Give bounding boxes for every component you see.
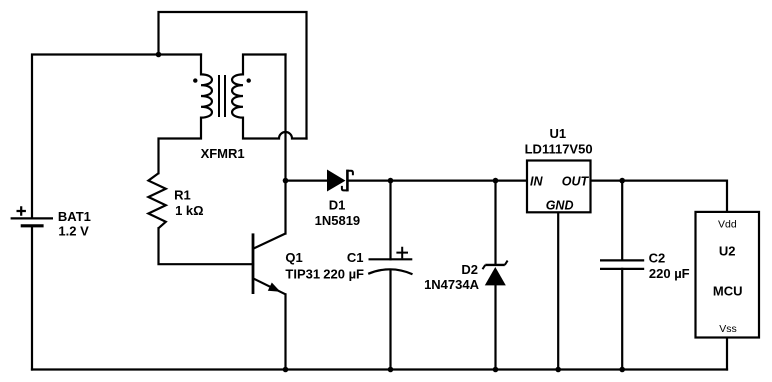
wire collector vertical: [284, 55, 286, 234]
svg-text:U1: U1: [549, 126, 566, 141]
D1 schottky hooks: [342, 171, 353, 191]
svg-text:C1: C1: [347, 250, 364, 265]
Q1 emitter arrow: [268, 283, 281, 292]
svg-text:220 µF: 220 µF: [323, 267, 364, 282]
svg-text:LD1117V50: LD1117V50: [525, 141, 593, 156]
wire R1 bottom to Q1 base: [159, 228, 254, 264]
D2 zener ticks: [483, 261, 508, 270]
wire battery positive to primary top: [32, 55, 201, 219]
primary winding: [201, 74, 212, 117]
D2 zener bar: [485, 264, 505, 266]
wire C2 top: [621, 181, 623, 261]
svg-text:R1: R1: [174, 188, 191, 203]
regulator U1: [527, 161, 591, 213]
svg-text:Q1: Q1: [285, 250, 302, 265]
junction D2 node: [493, 178, 499, 184]
diode D1 (schottky): [327, 170, 346, 192]
resistor R1: [148, 173, 165, 228]
svg-text:TIP31: TIP31: [285, 267, 320, 282]
wire C1 top: [389, 181, 391, 260]
svg-text:IN: IN: [530, 175, 543, 189]
wire U1 GND stub: [557, 212, 559, 369]
wire primary top stub: [200, 55, 202, 75]
svg-text:1N5819: 1N5819: [315, 213, 361, 228]
junction C1 node: [388, 178, 394, 184]
svg-text:1 kΩ: 1 kΩ: [175, 203, 204, 218]
junction D1 node: [283, 178, 289, 184]
wire secondary top to collector line: [243, 55, 286, 75]
Q1 emitter diagonal: [253, 278, 286, 294]
C2 bottom plate: [600, 268, 644, 270]
wire battery negative to ground rail: [31, 226, 33, 370]
svg-text:OUT: OUT: [562, 175, 590, 189]
Q1 collector diagonal: [253, 234, 286, 249]
secondary phase dot: [247, 78, 251, 82]
svg-text:220 µF: 220 µF: [649, 266, 690, 281]
svg-text:BAT1: BAT1: [58, 209, 91, 224]
wire ground rail: [32, 368, 727, 370]
MCU U2: [696, 212, 760, 338]
svg-text:XFMR1: XFMR1: [201, 146, 245, 161]
junction rail C1: [388, 367, 394, 373]
zener diode D2: [485, 267, 506, 285]
svg-text:MCU: MCU: [713, 283, 743, 298]
wire C2 bottom to rail: [621, 269, 623, 370]
primary phase dot: [193, 78, 197, 82]
junction rail Q1: [283, 367, 289, 373]
secondary winding: [232, 74, 243, 117]
junction rail C2: [619, 367, 625, 373]
svg-text:U2: U2: [719, 243, 736, 258]
svg-text:1N4734A: 1N4734A: [424, 277, 480, 292]
svg-text:GND: GND: [546, 199, 574, 213]
wire top feedback loop: [159, 12, 307, 139]
capacitor C2: [600, 260, 644, 269]
wire secondary bottom with hop: [243, 118, 307, 139]
transformer XFMR1: [201, 74, 243, 117]
D1 cathode bar: [346, 170, 349, 192]
C2 top plate: [600, 259, 644, 261]
battery BAT1: [11, 218, 53, 225]
C1 curved plate: [368, 269, 412, 274]
junction top: [156, 52, 162, 58]
svg-text:1.2 V: 1.2 V: [58, 224, 89, 239]
wire D2 bottom to rail: [494, 285, 496, 369]
transistor Q1: [253, 233, 286, 294]
wire D1 cathode to U1 IN: [348, 180, 527, 182]
svg-text:Vdd: Vdd: [718, 219, 737, 231]
wire Q1 emitter to rail: [284, 294, 286, 369]
wire C1 bottom to rail: [389, 270, 391, 370]
junction C2 node: [619, 178, 625, 184]
wire primary bottom to R1: [159, 118, 202, 174]
Q1 base bar: [252, 233, 255, 294]
svg-text:D2: D2: [461, 262, 478, 277]
C1 top plate: [369, 258, 413, 260]
wire node A to D1 anode: [286, 180, 328, 182]
junction rail U1 GND: [555, 367, 561, 373]
C1 plus sign: [396, 247, 408, 259]
capacitor C1: [368, 259, 412, 274]
wire U2 Vss to rail: [726, 338, 728, 370]
junction rail D2: [493, 367, 499, 373]
battery plus sign: [17, 206, 26, 215]
svg-text:D1: D1: [329, 198, 346, 213]
svg-text:Vss: Vss: [719, 323, 737, 335]
svg-text:C2: C2: [649, 250, 666, 265]
wire U1 OUT to U2 Vdd: [591, 181, 728, 212]
wire D2 top: [494, 181, 496, 265]
transformer core: [219, 75, 225, 117]
